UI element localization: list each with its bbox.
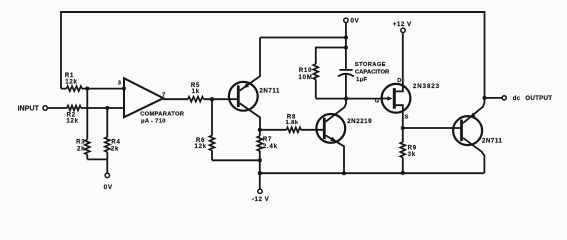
svg-text:R7: R7 [263, 137, 272, 143]
svg-text:12k: 12k [194, 144, 206, 150]
terminal 0V top [344, 18, 348, 22]
svg-text:dc: dc [513, 95, 521, 102]
svg-text:2k: 2k [111, 146, 119, 152]
transistor Q4 2N711 output [453, 116, 482, 145]
svg-text:2N711: 2N711 [259, 87, 280, 94]
wire Q4 base [403, 127, 461, 129]
wire left feedback drop [60, 11, 62, 89]
transistor Q1 2N711 [229, 82, 258, 111]
Q2 collector lead to gate node [326, 99, 346, 122]
terminal 0V bottom [105, 173, 109, 177]
terminal +12V [401, 28, 405, 32]
wire node A down to R3 [86, 89, 88, 140]
wire R2 to inverting input [81, 107, 124, 109]
svg-text:R10: R10 [299, 68, 312, 74]
svg-text:μA - 710: μA - 710 [141, 118, 166, 124]
svg-text:1k: 1k [192, 89, 200, 95]
resistor R6 [210, 136, 215, 151]
wire R5 to Q1 base [204, 98, 238, 100]
svg-text:D: D [397, 78, 401, 84]
capacitor C1 curved plate [338, 74, 354, 77]
resistor R2 [67, 106, 81, 111]
junction R6/R7 [258, 158, 262, 162]
svg-text:R6: R6 [196, 138, 205, 144]
wire node A to pin 3 [87, 88, 124, 90]
svg-text:0V: 0V [350, 17, 359, 24]
wire R3-R4 bottom [87, 158, 107, 160]
svg-text:2N2219: 2N2219 [347, 118, 372, 125]
wire op-amp output [163, 98, 188, 100]
svg-text:R1: R1 [65, 73, 74, 79]
wire 0V stub [106, 159, 108, 173]
svg-text:STORAGE: STORAGE [355, 62, 386, 68]
junction R10 top [344, 45, 348, 49]
svg-text:R4: R4 [111, 140, 120, 146]
wire R10 top branch [316, 48, 346, 65]
svg-text:2.4k: 2.4k [263, 144, 278, 150]
FET gate arrow [382, 98, 388, 100]
svg-text:S: S [404, 115, 408, 121]
junction R4 tap [105, 106, 109, 110]
resistor R1 [67, 86, 83, 91]
wire Q1 emitter to 0V node [260, 37, 346, 39]
svg-text:COMPARATOR: COMPARATOR [140, 111, 185, 117]
wire INPUT to R2 [48, 107, 68, 109]
svg-text:10M: 10M [299, 75, 313, 81]
svg-text:7: 7 [162, 92, 165, 98]
capacitor C1 storage 1uF top plate [339, 69, 352, 71]
wire R4 drop [106, 108, 108, 137]
junction Q1 collector / R7 / R8 [258, 128, 262, 132]
wire R8 from Q1 collector [260, 129, 287, 131]
Q1 collector lead [240, 103, 260, 130]
junction node A R1/R3/pin3 [85, 87, 89, 91]
junction Q2 emitter / rail [342, 171, 346, 175]
transistor Q3 2N3823 FET [382, 84, 411, 113]
svg-text:2N711: 2N711 [482, 138, 503, 145]
wire to output terminal [485, 97, 503, 99]
svg-text:2k: 2k [77, 146, 85, 152]
terminal -12V [259, 173, 261, 189]
svg-text:G: G [375, 99, 380, 105]
terminal dc OUTPUT [502, 96, 506, 100]
svg-text:2N3823: 2N3823 [413, 83, 440, 90]
wire R9 drop [402, 128, 404, 142]
junction R6 top [210, 97, 214, 101]
resistor R10 [313, 64, 318, 80]
resistor R7 [259, 130, 261, 136]
pin 3 junction [122, 87, 126, 91]
junction emitter return [344, 35, 348, 39]
svg-text:3k: 3k [408, 152, 416, 158]
terminal INPUT [43, 106, 47, 110]
svg-text:-12 V: -12 V [252, 196, 270, 203]
wire feedback top rail [61, 11, 485, 13]
FET source lead [396, 105, 403, 128]
resistor R3 [85, 140, 90, 155]
resistor R4 [105, 137, 110, 152]
wire right feedback drop [484, 11, 486, 98]
Q2 emitter lead with NPN arrow [326, 135, 344, 173]
wire 0V down [345, 23, 347, 69]
svg-text:0V: 0V [104, 184, 113, 191]
junction gate node [344, 97, 348, 101]
svg-text:R5: R5 [191, 83, 200, 89]
transistor Q2 2N2219 [316, 114, 345, 143]
svg-text:1μF: 1μF [356, 77, 367, 83]
junction output node [482, 96, 486, 100]
FET drain lead [396, 33, 403, 92]
svg-text:INPUT: INPUT [18, 106, 40, 113]
junction FET source / R9 / Q4 base [401, 126, 405, 130]
wire gate node to FET gate [316, 98, 382, 100]
Q4 emitter lead with PNP arrow to output node [463, 98, 485, 123]
junction -12V rail tee [258, 171, 262, 175]
wire R6 drop [211, 99, 213, 135]
resistor R9 [400, 142, 405, 158]
resistor R8 [287, 127, 302, 132]
Q1 emitter lead with PNP arrow [240, 38, 260, 91]
svg-text:R9: R9 [408, 146, 417, 152]
wire cap to gate node [345, 74, 347, 98]
wire R6 bottom to -12V node [212, 159, 260, 161]
svg-text:12k: 12k [66, 119, 78, 125]
svg-text:OUTPUT: OUTPUT [525, 95, 552, 102]
svg-text:1.8k: 1.8k [286, 120, 299, 126]
op-amp U1 comparator uA-710 triangle [124, 78, 163, 117]
svg-text:12k: 12k [65, 80, 77, 86]
junction R9 / rail [401, 171, 405, 175]
wire R8 to Q2 base [301, 129, 323, 131]
svg-text:+12 V: +12 V [393, 21, 412, 28]
resistor R5 [188, 97, 204, 102]
svg-text:R3: R3 [76, 140, 85, 146]
rail -12V [260, 172, 485, 174]
Q4 collector lead down to rail [463, 138, 485, 173]
svg-text:CAPACITOR: CAPACITOR [355, 69, 390, 75]
